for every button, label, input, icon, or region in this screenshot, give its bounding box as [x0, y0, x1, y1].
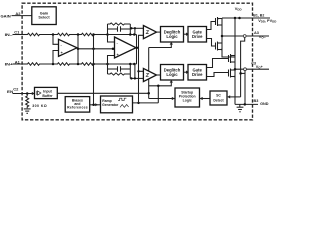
- wire op1 plus input: [53, 51, 59, 65]
- wire comp1 upper input: [130, 27, 143, 29]
- svg-text:GAIN: GAIN: [1, 13, 11, 18]
- node ramp branch: [137, 102, 139, 104]
- node op2 tip: [136, 46, 139, 49]
- node top B: [77, 33, 80, 36]
- svg-text:C1: C1: [14, 30, 20, 35]
- capacitor Cf top: [118, 26, 121, 31]
- arrow into SC: [227, 95, 230, 98]
- dashed device boundary: [22, 3, 252, 120]
- resistor R feedback top B: [57, 33, 70, 36]
- svg-text:VDD: VDD: [235, 6, 242, 12]
- svg-text:Buffer: Buffer: [42, 94, 53, 98]
- resistor R feedback bottom B: [57, 63, 70, 66]
- node RC right: [129, 33, 132, 36]
- node RC bottom right: [129, 63, 132, 66]
- wire S2 down to RC bottom: [107, 64, 109, 74]
- resistor R input+ A bottom: [27, 63, 40, 66]
- wire bridge1 rail: [221, 18, 223, 50]
- node VDD a: [234, 17, 237, 20]
- node bottom C: [92, 63, 95, 66]
- node mid C: [92, 48, 95, 51]
- wire tie rail to comp1 line: [134, 28, 136, 34]
- node S2 bottom summing: [106, 63, 109, 66]
- node top C: [92, 33, 95, 36]
- transistor Q3 (high side, VO+): [229, 54, 236, 63]
- SC Detect box: [210, 91, 227, 105]
- pin EN / C2: [7, 87, 35, 95]
- wire tie rail to comp2 line: [134, 64, 136, 78]
- pin GND / B3: [254, 99, 269, 106]
- pin IN- / C1: [5, 30, 27, 37]
- node comp1 upper b: [134, 27, 136, 29]
- wire vertical C rail tie: [93, 35, 95, 105]
- svg-text:C2: C2: [13, 87, 19, 92]
- wire op1 output middle line: [77, 48, 113, 50]
- node IB join: [147, 92, 150, 95]
- arrow into startup: [172, 97, 175, 100]
- node sense join: [239, 72, 242, 75]
- wire cap stub top left: [108, 28, 118, 30]
- svg-text:Select: Select: [38, 16, 50, 20]
- wire ramp riser right: [157, 86, 159, 103]
- pin GAIN / A2: [1, 11, 32, 18]
- comparator U4: [143, 68, 156, 81]
- resistor 300K: [26, 94, 29, 109]
- wire into startup: [149, 98, 175, 100]
- resistor R feedback bottom C: [81, 63, 94, 66]
- wire S2 to op2 plus: [108, 56, 115, 65]
- resistor Rf top: [108, 23, 131, 25]
- svg-text:References: References: [67, 105, 88, 109]
- pin VO+ / C3: [251, 62, 263, 70]
- node ramp comp2 branch: [137, 70, 139, 72]
- wire Q2 source to gnd path: [222, 50, 235, 58]
- wire comp2 to deglitch2: [157, 74, 161, 76]
- node EN tap: [26, 92, 29, 95]
- label 300 KOhm: [32, 104, 47, 108]
- arrow into startup from SC: [200, 97, 203, 100]
- wire top rail seg2: [69, 34, 81, 36]
- node bottom A: [52, 63, 55, 66]
- node VDD b: [238, 17, 241, 20]
- svg-text:Logic: Logic: [166, 34, 178, 39]
- node bottom B: [77, 63, 80, 66]
- wire to deglitch1 arrow: [149, 44, 172, 48]
- arrows biases-ramp: [90, 103, 101, 106]
- wire gate drive 2 to Q3 gate: [207, 59, 229, 68]
- wire to deglitch2 arrow: [149, 82, 172, 86]
- wire cap stub top right: [121, 28, 131, 30]
- wire bottom rail seg3: [93, 63, 108, 65]
- node VO- tap: [221, 35, 224, 38]
- Ramp Generator box: [101, 96, 133, 113]
- node op2 in mid: [112, 48, 115, 51]
- wire vertical B rail tie: [77, 35, 79, 65]
- wire S1 to op2 minus: [108, 35, 115, 43]
- wire bridge2 rail: [234, 18, 236, 104]
- wire GND rail: [235, 103, 258, 105]
- node deglitch2 line: [157, 85, 160, 88]
- transistor Q2 (low side, VO-): [216, 42, 223, 51]
- resistor R input- A: [27, 33, 40, 36]
- wire gate drive 1 to Q2 gate: [207, 39, 217, 47]
- comparator U3: [143, 26, 156, 39]
- wire riser deglitch feed: [148, 48, 150, 99]
- op-amp U1: [59, 39, 78, 56]
- wire bottom rail: [108, 63, 137, 65]
- wire RC right corner down: [129, 24, 131, 35]
- svg-text:Logic: Logic: [183, 98, 192, 102]
- node comp1 upper a: [130, 27, 132, 29]
- svg-text:SC: SC: [216, 94, 221, 98]
- resistor Rf bottom: [108, 73, 131, 75]
- wire ramp comp2 stub: [139, 70, 144, 72]
- node GND join: [244, 103, 247, 106]
- wire top rail seg3: [93, 34, 108, 36]
- svg-text:Logic: Logic: [166, 72, 178, 77]
- arrow into deglitch2: [170, 80, 173, 83]
- wire cap stub bottom left: [108, 68, 118, 70]
- Biases and References box: [65, 97, 90, 113]
- node VO+ tap: [234, 68, 237, 71]
- wire op2 out tie vertical: [136, 35, 138, 65]
- wire top rail seg1: [40, 34, 57, 36]
- svg-text:B3: B3: [254, 99, 259, 103]
- wire sense into SC: [230, 96, 241, 98]
- Deglitch Logic box 2: [161, 65, 184, 81]
- transistor Q1 (high side, VO-): [216, 17, 223, 26]
- svg-text:Drive: Drive: [192, 72, 203, 77]
- arrow into deglitch1: [170, 42, 173, 45]
- Input Buffer box: [35, 87, 58, 98]
- node op2 top out tie: [133, 33, 136, 36]
- svg-text:Generator: Generator: [102, 103, 119, 107]
- wire RC bottom right corner up: [129, 64, 131, 78]
- arrow deglitch1 to gate1: [184, 33, 190, 36]
- wire cap stub bottom right: [121, 68, 131, 70]
- capacitor Cf bottom: [118, 66, 121, 71]
- svg-text:300 KΩ: 300 KΩ: [32, 104, 47, 108]
- ground symbol right: [237, 107, 244, 112]
- wire ramp to comparators: [139, 35, 144, 103]
- node top A: [52, 33, 55, 36]
- wire S1 up to RC: [107, 24, 109, 35]
- node op1 out: [77, 48, 80, 51]
- pin VDD / B1 B2: [253, 13, 276, 23]
- wire VO- feedback hook: [241, 37, 245, 97]
- svg-text:B1, B2: B1, B2: [253, 13, 264, 17]
- wire gate drive 2 to Q4 gate: [207, 73, 229, 77]
- wire gnd drop: [239, 104, 241, 107]
- wire comp1 to deglitch1: [157, 31, 161, 33]
- pin VO- / A3: [254, 31, 266, 40]
- op-amp U2: [115, 37, 137, 58]
- wire input buffer output: [57, 92, 148, 94]
- svg-text:Input: Input: [43, 89, 52, 93]
- wire top rail: [108, 34, 137, 36]
- VDD label: [235, 6, 242, 12]
- Deglitch Logic box 1: [161, 27, 184, 43]
- wire VO+ hook to sense: [241, 72, 245, 74]
- Startup Protection Logic box: [175, 88, 200, 107]
- wire gate drive 1 to Q1 gate: [207, 22, 216, 30]
- node S1 top summing: [106, 33, 109, 36]
- node comp2 lower b: [134, 77, 136, 79]
- svg-text:Detect: Detect: [213, 99, 224, 103]
- svg-text:Drive: Drive: [192, 34, 203, 39]
- svg-text:IN+: IN+: [5, 61, 14, 66]
- wire comp2 lower input: [130, 77, 143, 79]
- node op2 bottom tie: [133, 63, 136, 66]
- wire ramp output: [133, 102, 159, 104]
- junction circle VO-: [243, 35, 246, 38]
- junction circle VO+: [244, 68, 247, 71]
- wire VO+ output: [235, 68, 269, 70]
- resistor R feedback top C: [81, 33, 94, 36]
- arrow into input buffer: [32, 92, 35, 95]
- wire VO- output: [222, 35, 269, 37]
- svg-text:IN–: IN–: [5, 32, 14, 37]
- VDD rail: [222, 17, 270, 19]
- node comp2 lower a: [130, 77, 132, 79]
- wire bottom rail seg2: [69, 63, 81, 65]
- Gate Drive box 2: [188, 65, 207, 81]
- transistor Q4 (low side, VO+): [229, 69, 236, 78]
- Gate Drive box 1: [188, 27, 207, 43]
- wire VO+ drop to GND rail: [244, 71, 246, 105]
- Gain Select box: [32, 7, 56, 25]
- wire SC to startup: [200, 98, 211, 100]
- ground symbol left: [24, 109, 31, 113]
- wire bottom rail seg1: [40, 63, 57, 65]
- wire op1 minus input: [53, 35, 59, 45]
- pin IN+ / A1: [5, 59, 27, 66]
- arrow deglitch2 to gate2: [184, 71, 190, 74]
- svg-text:GND: GND: [260, 102, 269, 106]
